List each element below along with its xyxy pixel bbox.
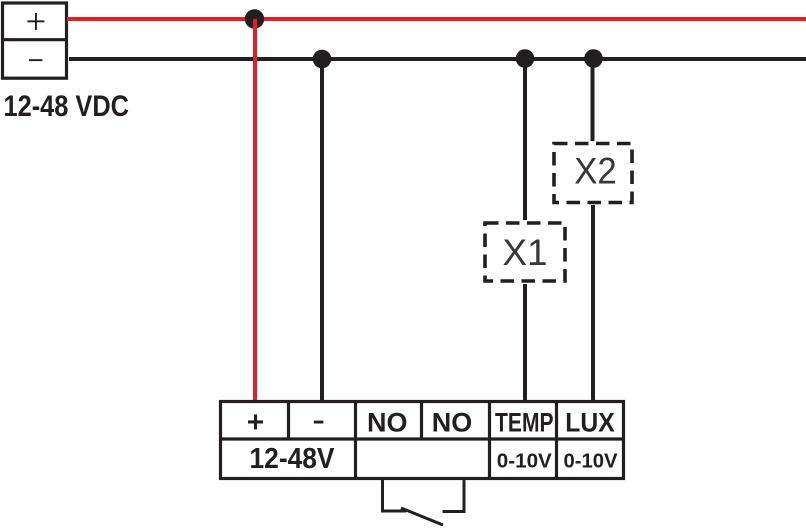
svg-text:TEMP: TEMP bbox=[495, 408, 554, 438]
wire: black drop from bus to X1 bbox=[523, 59, 527, 220]
svg-text:NO: NO bbox=[432, 408, 473, 438]
divider - / NO (full) bbox=[354, 402, 357, 479]
wire: red positive bus from + pin to right edge bbox=[67, 17, 806, 21]
pin - of power supply bbox=[29, 59, 42, 61]
divider + / - (top row only) bbox=[287, 402, 290, 440]
svg-text:12-48V: 12-48V bbox=[250, 443, 336, 475]
terminal - bbox=[314, 421, 324, 424]
wire: black drop from X1 to TEMP terminal bbox=[523, 284, 527, 401]
pin + of power supply bbox=[27, 13, 44, 30]
svg-text:X1: X1 bbox=[503, 232, 548, 273]
power supply terminal box 12-48 VDC bbox=[3, 3, 67, 78]
svg-text:12-48 VDC: 12-48 VDC bbox=[4, 90, 130, 123]
switch (NO contact) left lead bbox=[383, 479, 407, 512]
divider TEMP / LUX (full) bbox=[555, 402, 558, 479]
wire: black drop to - terminal bbox=[320, 59, 324, 401]
sensor X1 (dashed box) bbox=[485, 223, 565, 281]
divider NO / NO (top row only) bbox=[420, 402, 423, 440]
wire: red drop to + terminal bbox=[253, 19, 257, 401]
divider NO / TEMP (full) bbox=[488, 402, 491, 479]
terminal + bbox=[248, 414, 263, 429]
svg-text:0-10V: 0-10V bbox=[564, 450, 619, 472]
svg-text:0-10V: 0-10V bbox=[497, 450, 553, 472]
switch right lead bbox=[443, 477, 465, 512]
svg-text:X2: X2 bbox=[574, 151, 617, 192]
node: junction on black bus for X1/TEMP bbox=[516, 49, 535, 68]
switch blade bbox=[401, 508, 443, 525]
wire: black negative bus from - pin to right edge bbox=[69, 57, 806, 61]
sensor X2 (dashed box) bbox=[554, 144, 632, 203]
row divider bbox=[221, 437, 624, 440]
node: junction on black bus for X2/LUX bbox=[584, 49, 603, 68]
wire: black drop from bus to X2 bbox=[591, 59, 595, 141]
wire: black drop from X2 to LUX terminal bbox=[591, 205, 595, 401]
controller terminal block bbox=[221, 402, 624, 479]
node: junction on black bus for - terminal bbox=[313, 50, 332, 69]
node: junction on red bus bbox=[245, 9, 264, 28]
svg-text:NO: NO bbox=[367, 408, 408, 438]
svg-text:LUX: LUX bbox=[565, 408, 615, 438]
